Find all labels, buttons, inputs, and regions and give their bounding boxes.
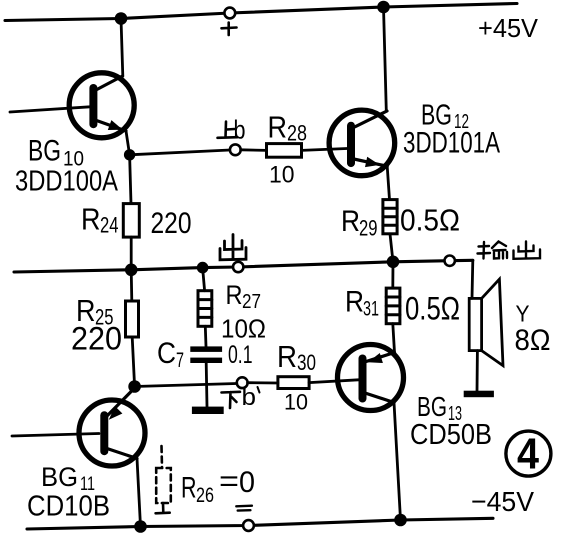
wire R30 to BG13 base xyxy=(309,380,358,383)
speaker Y xyxy=(469,279,503,365)
svg-text:28: 28 xyxy=(287,121,307,146)
svg-text:24: 24 xyxy=(100,213,119,238)
svg-text:BG: BG xyxy=(41,462,78,492)
svg-text:R: R xyxy=(226,280,243,310)
label R29 xyxy=(341,205,378,241)
svg-text:R: R xyxy=(181,472,197,505)
junction mid rail / R29-R31 xyxy=(387,255,400,268)
svg-text:=: = xyxy=(219,465,239,498)
junction bottom rail / BG13 collector xyxy=(394,514,407,527)
wire +45V top rail xyxy=(5,4,517,21)
terminal 上b xyxy=(230,144,241,155)
value 10 of R30 xyxy=(284,390,308,415)
svg-text:220: 220 xyxy=(71,321,122,357)
svg-text:31: 31 xyxy=(363,297,379,321)
svg-text:0.5Ω: 0.5Ω xyxy=(400,203,460,238)
svg-text:10Ω: 10Ω xyxy=(221,314,266,344)
wire node to 上b terminal xyxy=(130,150,230,155)
transistor BG10 3DD100A xyxy=(69,73,134,138)
junction R25 / BG11 emitter / 下b rail xyxy=(128,380,141,393)
wire mid output rail xyxy=(14,260,473,272)
wire BG12 emitter to R29 xyxy=(387,166,389,199)
svg-text:220: 220 xyxy=(151,207,192,240)
wire BG11 collector to bottom rail xyxy=(137,459,141,527)
wire 下b rail from junction xyxy=(135,384,237,387)
value 220 of R24 xyxy=(151,207,192,240)
svg-text:10: 10 xyxy=(284,390,308,415)
label b of 上b xyxy=(234,115,246,145)
wire mid rail to R25 xyxy=(130,270,133,301)
svg-text:R: R xyxy=(345,286,364,319)
resistor R24 xyxy=(123,204,139,238)
junction mid rail / R24-R25 xyxy=(125,264,138,277)
resistor R25 xyxy=(126,301,139,337)
svg-text:+45V: +45V xyxy=(478,13,539,43)
svg-text:BG: BG xyxy=(417,391,447,422)
terminal 下b xyxy=(237,377,248,388)
value 0.5Ω of R29 xyxy=(400,203,460,238)
label BG13 xyxy=(417,391,462,425)
label CD10B xyxy=(27,491,110,523)
svg-text:0.5Ω: 0.5Ω xyxy=(405,291,460,327)
label -45V xyxy=(471,486,534,517)
terminal 输出 output xyxy=(445,256,455,266)
transistor BG11 CD10B xyxy=(79,388,145,466)
label BG10 xyxy=(28,135,84,171)
label R24 xyxy=(81,202,119,238)
terminal - supply on bottom rail xyxy=(243,520,254,531)
figure number 4 in circle xyxy=(506,431,551,476)
svg-text:R: R xyxy=(81,202,101,237)
junction top rail / BG10 collector xyxy=(115,12,128,25)
value 10 of R28 xyxy=(269,162,295,189)
wire -45V bottom rail xyxy=(27,518,493,529)
label 8Ω xyxy=(515,324,551,357)
wire R26 bottom lead xyxy=(162,503,165,513)
wire BG10 base lead from left edge xyxy=(10,107,90,112)
label R25 xyxy=(76,293,114,330)
wire node to R24 xyxy=(130,155,131,204)
ground bar below C7 xyxy=(192,407,224,414)
svg-text:0.1: 0.1 xyxy=(228,341,253,369)
svg-text:3DD100A: 3DD100A xyxy=(15,166,119,198)
wire 下b terminal to R30 xyxy=(248,381,278,384)
label 上 (shang) xyxy=(218,122,238,138)
ground bar below speaker xyxy=(464,391,494,398)
resistor R28 xyxy=(267,144,302,158)
label 出 (out) xyxy=(220,235,246,260)
transistor BG12 3DD101A xyxy=(329,110,395,176)
svg-text:−45V: −45V xyxy=(471,486,534,517)
label 输 (shu) xyxy=(478,242,508,259)
label BG11 xyxy=(41,462,95,495)
label R30 xyxy=(277,339,316,375)
junction top rail / BG12 collector xyxy=(377,1,390,14)
label R26=0 xyxy=(181,465,255,507)
wire C7 down to end bar xyxy=(205,363,209,407)
wire BG13 collector to bottom rail xyxy=(394,403,401,521)
label + polarity mark xyxy=(222,23,237,36)
value 10Ω of R27 xyxy=(221,314,266,344)
svg-text:R: R xyxy=(277,339,297,374)
resistor R26 dashed xyxy=(156,446,171,503)
svg-text:Y: Y xyxy=(516,301,530,327)
svg-text:0: 0 xyxy=(239,466,255,499)
wire R27 to C7 xyxy=(204,326,207,346)
wire BG12 collector to +45V rail xyxy=(384,7,387,111)
label 3DD101A xyxy=(403,127,500,160)
value 220 of R25 xyxy=(71,321,122,357)
svg-text:7: 7 xyxy=(176,349,184,372)
svg-text:4: 4 xyxy=(517,430,539,479)
label b' of 下b xyxy=(242,384,257,411)
resistor R30 xyxy=(278,377,309,389)
node BG10 emitter junction xyxy=(124,149,135,160)
junction bottom rail / BG11 collector xyxy=(134,520,147,533)
label R28 xyxy=(268,110,308,146)
wire R25 to BG11 emitter junction xyxy=(132,337,134,387)
svg-text:10: 10 xyxy=(269,162,295,189)
label 4 xyxy=(517,430,539,479)
wire output node to R31 xyxy=(391,262,394,288)
wire R24 to mid rail xyxy=(130,237,133,270)
label 3DD100A xyxy=(15,166,119,198)
apostrophe tick after b xyxy=(258,387,260,393)
svg-text:8Ω: 8Ω xyxy=(515,324,551,357)
label BG12 xyxy=(421,100,469,134)
wire 上b terminal to R28 xyxy=(241,148,267,151)
resistor R31 xyxy=(386,288,400,324)
svg-text:C: C xyxy=(157,337,176,370)
svg-text:26: 26 xyxy=(196,484,214,507)
svg-text:CD50B: CD50B xyxy=(410,419,492,451)
svg-text:BG: BG xyxy=(28,135,61,168)
wire speaker to ground xyxy=(476,351,479,392)
label R31 xyxy=(345,286,379,321)
junction mid rail / R27 xyxy=(197,262,209,274)
label 出 (small, of 输出) xyxy=(514,242,541,259)
svg-text:CD10B: CD10B xyxy=(27,491,110,523)
capacitor C7 xyxy=(190,346,222,363)
svg-text:R: R xyxy=(341,205,360,238)
wire BG10 emitter down to node xyxy=(126,131,130,155)
resistor R29 xyxy=(383,200,397,234)
svg-text:29: 29 xyxy=(359,216,378,241)
terminal + supply on top rail xyxy=(224,8,235,19)
label Y xyxy=(516,301,530,327)
svg-text:27: 27 xyxy=(242,291,261,313)
wire R31 to BG13 emitter xyxy=(393,324,395,353)
terminal 出 on mid rail xyxy=(233,262,243,272)
wire R28 to BG12 base xyxy=(302,149,348,151)
label R27 xyxy=(226,280,262,313)
svg-text:b: b xyxy=(242,384,257,411)
label +45V xyxy=(478,13,539,43)
label 下 (xia) xyxy=(222,392,241,408)
label CD50B xyxy=(410,419,492,451)
transistor BG13 CD50B xyxy=(338,345,404,411)
wire mid rail to R27 xyxy=(203,268,205,291)
wire BG10 collector up to rail xyxy=(121,19,123,77)
resistor R27 xyxy=(198,291,212,327)
label - polarity double dash xyxy=(236,506,252,511)
label C7 xyxy=(157,337,184,372)
wire output corner to speaker xyxy=(471,260,475,298)
wire R29 to output node xyxy=(390,234,393,262)
value 0.1 of C7 xyxy=(228,341,253,369)
tick at R26 bottom xyxy=(156,511,170,514)
value 0.5Ω of R31 xyxy=(405,291,460,327)
wire BG11 base lead from left edge xyxy=(12,434,99,437)
svg-text:30: 30 xyxy=(297,350,316,375)
svg-text:3DD101A: 3DD101A xyxy=(403,127,500,160)
svg-text:b: b xyxy=(234,115,246,145)
svg-text:R: R xyxy=(268,110,288,145)
